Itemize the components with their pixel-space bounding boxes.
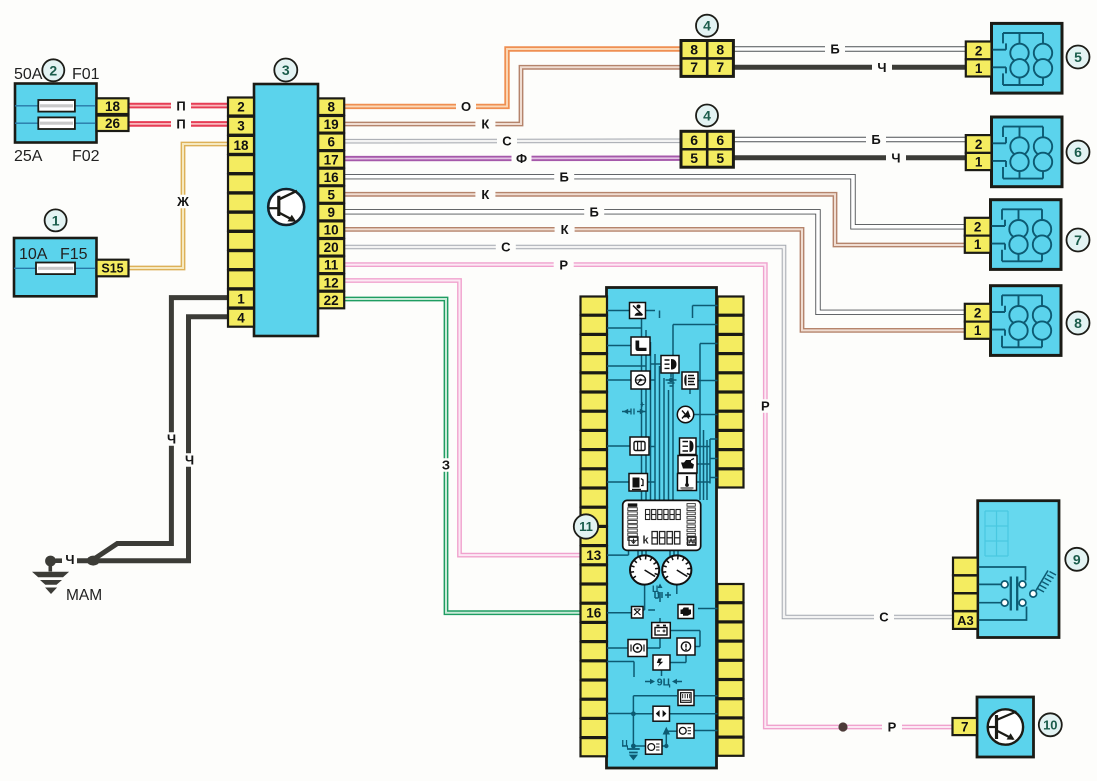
wire С gray connector 3 pin 6 to connector 4 pin 6 (344, 139, 681, 144)
svg-text:П: П (176, 117, 185, 132)
wire colour label П (171, 117, 191, 131)
svg-text:8: 8 (1074, 315, 1082, 331)
fuse F01 element (38, 100, 75, 112)
connector 3 left pin (blank) (228, 251, 254, 269)
svg-text:2: 2 (975, 137, 983, 152)
connector 3 right pin 12 (318, 274, 344, 291)
warning icon: turn signals (653, 706, 670, 721)
svg-text:4: 4 (703, 18, 711, 34)
warning icon: oil pressure (628, 640, 647, 657)
wire colour label П (171, 99, 191, 113)
svg-text:50A: 50A (14, 66, 43, 83)
connector 3 left pin 3 (228, 117, 254, 135)
warning icon: battery charge (652, 623, 671, 639)
cluster 11 right pin (blank) (718, 450, 744, 468)
fuse box 2 with fuses F01 and F02 (15, 84, 97, 143)
wire colour label О (456, 100, 476, 114)
cluster 11 left pin (blank) (581, 489, 608, 507)
svg-text:Б: Б (871, 132, 880, 147)
cluster 11 right pin (blank) (718, 718, 744, 736)
connector 3 left pin (blank) (228, 174, 254, 192)
connector 3 left pin 1 (228, 290, 254, 308)
symbol 9Ц with arrows (645, 681, 682, 683)
cluster 11 right pin (blank) (718, 373, 744, 391)
svg-text:Ф: Ф (516, 151, 527, 166)
warning icon: headlight low beam (661, 356, 679, 374)
cluster 11 right pin (blank) (718, 603, 744, 621)
svg-text:2: 2 (974, 306, 982, 321)
warning icon: brake warning circle (677, 638, 695, 655)
warning icon: coolant temperature (678, 474, 697, 491)
wire Б white connector 4 to lamp 6 pin 2 (733, 137, 965, 142)
svg-text:+: + (640, 400, 645, 409)
wire colour label С (874, 610, 894, 624)
svg-text:9Ц: 9Ц (657, 677, 671, 689)
svg-text:7: 7 (961, 719, 969, 734)
connector 4 (lower) pins 6/6 and 5/5 (681, 131, 733, 167)
reference circle 11 (574, 514, 598, 538)
cluster 11 left pin (blank) (581, 412, 608, 430)
svg-text:Ч: Ч (877, 60, 886, 75)
wire О orange connector 3 pin 8 to connector 4 pin 8 (344, 49, 681, 106)
wire colour label З (436, 458, 456, 472)
reference circle 4 (upper) (696, 15, 718, 37)
svg-text:11: 11 (324, 258, 339, 273)
cluster 11 left pin (blank) (581, 527, 608, 545)
cluster internal wiring bus (607, 306, 718, 747)
pin 26 of fuse box 2 (97, 116, 129, 131)
svg-text:S15: S15 (101, 262, 123, 276)
lamp unit 6 pin 2 (966, 135, 992, 153)
cluster gauge tachometer (662, 555, 691, 584)
svg-text:6: 6 (716, 132, 724, 148)
svg-text:9: 9 (327, 205, 335, 220)
wire colour label Ф (512, 152, 532, 166)
wire colour label К (475, 117, 495, 131)
svg-text:4: 4 (703, 108, 711, 124)
wire Ч black connector 3 pin 1 to ground MAM (93, 298, 228, 560)
wire colour label Р (554, 258, 574, 272)
switch unit 9 pin (blank) (953, 576, 978, 594)
switch contacts inside unit 9 (978, 567, 1056, 620)
reference circle 4 (lower) (696, 105, 718, 127)
pin 18 of fuse box 2 (97, 98, 129, 114)
svg-text:F01: F01 (72, 66, 100, 83)
wire colour label Ч (886, 151, 906, 165)
wire Б white connector 4 to lamp 5 pin 2 (733, 46, 965, 51)
warning icon: oil can (678, 456, 697, 474)
svg-text:1: 1 (237, 291, 245, 306)
svg-text:26: 26 (105, 116, 121, 131)
reference circle 10 (1039, 713, 1062, 736)
cluster 11 right pin (blank) (718, 738, 744, 756)
connector 3 right pin 17 (318, 151, 344, 168)
label Ч on wire from pin 4 (184, 453, 196, 467)
wire colour label Б (584, 205, 604, 219)
svg-text:Б: Б (830, 42, 839, 57)
cluster 11 left pin (blank) (581, 642, 608, 660)
wire Р pink connector 3 pin 11 to transistor unit 10 pin 7 (344, 265, 953, 727)
warning icon: steering/brake circle (631, 371, 650, 389)
svg-text:Ч: Ч (185, 453, 194, 468)
symbol Ц+ below gauges (655, 592, 671, 598)
svg-text:К: К (481, 187, 489, 202)
warning icon: high beam (680, 438, 697, 455)
svg-text:A3: A3 (957, 613, 974, 628)
svg-text:16: 16 (586, 606, 602, 621)
cluster 11 left pin (blank) (581, 469, 608, 487)
connector 3 left pin 18 (228, 136, 254, 154)
cluster 11 left pin (blank) (581, 431, 608, 449)
wire colour label Р (882, 720, 902, 734)
wire П red fuse F01 pin18 to connector 3 pin 2 (129, 103, 229, 109)
wire colour label С (497, 134, 517, 148)
connector 3 left pin (blank) (228, 194, 254, 212)
lamp unit 8 pin 1 (965, 322, 991, 339)
cluster 11 left pin (blank) (581, 335, 608, 353)
warning icon: check engine (678, 605, 694, 619)
cluster 11 left pin (blank) (581, 719, 608, 737)
wire П red fuse F02 pin26 to connector 3 pin 3 (129, 121, 229, 127)
wire colour label Б (825, 42, 845, 56)
svg-text:МАМ: МАМ (66, 587, 102, 604)
svg-text:К: К (561, 222, 569, 237)
warning icon: buzzer circle (677, 406, 693, 422)
connector 3 right pin 9 (318, 204, 344, 221)
svg-text:П: П (176, 98, 185, 113)
wire colour label К (555, 223, 575, 237)
cluster 11 right pin (blank) (718, 584, 744, 602)
cluster 11 left pin (blank) (581, 681, 608, 699)
cluster 11 left pin 16 (581, 604, 608, 622)
transistor symbol inside unit 10 (988, 709, 1023, 744)
junction dot on wire Р (838, 722, 847, 731)
warning icon: seat (631, 337, 650, 355)
lamp unit 8 pin 2 (965, 304, 991, 322)
svg-text:7: 7 (1074, 232, 1082, 248)
svg-text:Р: Р (559, 257, 568, 272)
wire Ч black connector 3 pin 4 to ground MAM (77, 317, 228, 561)
svg-text:Ч: Ч (167, 432, 176, 447)
svg-text:3: 3 (282, 62, 290, 78)
reference circle 5 (1067, 46, 1090, 69)
svg-text:2: 2 (237, 99, 245, 114)
transistor unit 10 body (977, 697, 1034, 757)
connector 3 left pin (blank) (228, 213, 254, 231)
svg-text:6: 6 (1074, 144, 1082, 160)
svg-text:Ч: Ч (891, 150, 900, 165)
svg-text:10A: 10A (19, 246, 48, 263)
svg-text:5: 5 (716, 150, 724, 166)
svg-text:С: С (501, 240, 511, 255)
svg-text:Р: Р (761, 399, 770, 414)
svg-text:С: С (502, 134, 512, 149)
switch unit 9 pin (blank) (953, 558, 978, 576)
svg-text:11: 11 (579, 519, 593, 534)
svg-text:12: 12 (324, 275, 339, 290)
svg-text:Ц: Ц (652, 584, 659, 594)
svg-text:Ц: Ц (622, 739, 629, 749)
warning icon: door ajar (630, 437, 649, 455)
connector 3 left pin (blank) (228, 155, 254, 173)
svg-text:1: 1 (974, 237, 982, 252)
switch unit 9 body (978, 501, 1059, 638)
svg-text:3: 3 (237, 119, 245, 134)
wire К brown connector 3 pin 5 to lamp 7 pin 1 (344, 194, 967, 245)
cluster 11 left pin (blank) (581, 700, 608, 718)
wire К brown connector 3 pin 10 to lamp 8 pin 1 (344, 229, 968, 330)
connector 3 right pin 10 (318, 221, 344, 238)
reference circle 9 (1065, 548, 1088, 571)
connector 3 left pin 4 (228, 309, 254, 327)
svg-text:18: 18 (105, 99, 121, 114)
lamp unit 6 pin 1 (966, 153, 992, 170)
cluster 11 left pin (blank) (581, 623, 608, 641)
cluster 11 right pin (blank) (718, 316, 744, 334)
lamp unit 5 pin 2 (966, 42, 992, 60)
reference circle 8 (1067, 312, 1090, 335)
wire colour label Р (755, 399, 775, 413)
connector 3 left pin (blank) (228, 232, 254, 250)
wire Р pink connector 3 pin 12 to cluster 11 pin 13 (344, 281, 581, 556)
wire С gray connector 3 pin 20 to switch 9 pin A3 (344, 247, 953, 617)
svg-text:З: З (442, 458, 450, 473)
cluster internal ground symbol (627, 749, 640, 759)
lamp unit 5 pin 1 (966, 59, 992, 76)
cluster 11 right pin (blank) (718, 642, 744, 660)
svg-text:8: 8 (716, 41, 724, 57)
lamp unit 7 pin 1 (965, 236, 991, 253)
svg-text:4: 4 (237, 311, 245, 326)
svg-text:25A: 25A (14, 148, 43, 165)
svg-text:1: 1 (52, 212, 60, 228)
svg-text:Б: Б (560, 169, 569, 184)
wire colour label С (496, 240, 516, 254)
cluster 11 right pin (blank) (718, 469, 744, 487)
junction dots inside cluster (631, 378, 673, 749)
svg-text:Б: Б (590, 204, 599, 219)
svg-text:6: 6 (327, 135, 335, 150)
connector 3 right pin 19 (318, 116, 344, 133)
arrow to lamp icon (666, 730, 677, 732)
svg-text:5: 5 (327, 187, 335, 202)
wire colour label Б (866, 133, 886, 147)
pin S15 (97, 260, 129, 277)
wire Б white connector 3 pin 9 to lamp 8 pin 2 (344, 212, 968, 312)
wire З green connector 3 pin 22 to cluster 11 pin 16 (344, 299, 581, 613)
reference circle 3 (274, 59, 297, 82)
connector block 3 body (254, 84, 318, 336)
warning icon: seat belt reminder (630, 303, 646, 319)
lamp unit 6 (991, 117, 1063, 187)
svg-text:20: 20 (324, 240, 339, 255)
cluster 11 left pin (blank) (581, 297, 608, 315)
cluster 11 right pin (blank) (718, 699, 744, 717)
svg-text:19: 19 (324, 117, 339, 132)
lamp unit 7 pin 2 (965, 218, 991, 236)
lamp unit 7 (990, 200, 1062, 270)
svg-text:7: 7 (716, 59, 724, 75)
svg-text:С: С (879, 610, 889, 625)
svg-text:9: 9 (1073, 551, 1081, 567)
svg-text:К: К (481, 117, 489, 132)
reference circle 2 (42, 59, 64, 81)
warning icon: side lamp (646, 740, 663, 755)
svg-text:7: 7 (690, 59, 698, 75)
cluster 11 left pin (blank) (581, 661, 608, 679)
warning icon: exclamation indicator (653, 655, 670, 670)
switch unit 9 internal grid (985, 511, 1008, 556)
transistor unit 10 pin 7 (953, 718, 978, 735)
wire colour label Б (554, 170, 574, 184)
svg-text:17: 17 (324, 152, 339, 167)
svg-text:10: 10 (324, 223, 339, 238)
svg-text:22: 22 (324, 293, 339, 308)
fuse 1 F15 box (14, 238, 97, 296)
reference circle 7 (1067, 229, 1090, 252)
label Ч on wire from pin 1 (166, 432, 178, 446)
svg-text:18: 18 (233, 138, 249, 153)
cluster 11 right pin (blank) (718, 661, 744, 679)
cluster gauge speedometer (630, 555, 659, 584)
svg-text:2: 2 (49, 62, 57, 78)
symbol Ц+ with arrows (left) (622, 409, 646, 415)
cluster 11 left pin (blank) (581, 508, 608, 526)
svg-text:Ж: Ж (176, 194, 189, 209)
svg-text:6: 6 (690, 132, 698, 148)
transistor symbol inside connector 3 (268, 189, 304, 225)
cluster 11 right pin (blank) (718, 335, 744, 353)
connector 3 left pin (blank) (228, 270, 254, 288)
connector 3 right pin 8 (318, 98, 344, 115)
ground MAM terminal and symbol (32, 556, 69, 594)
cluster 11 right pin (blank) (718, 354, 744, 372)
cluster 11 right pin (blank) (718, 412, 744, 430)
mini ground symbol in cluster top (666, 380, 677, 386)
wire К brown connector 3 pin 19 to connector 4 pin 7 (344, 67, 681, 124)
svg-text:1: 1 (975, 154, 983, 169)
connector 3 right pin 16 (318, 169, 344, 186)
label Ч on ground lead (65, 553, 76, 567)
connector 3 left pin 2 (228, 98, 254, 116)
cluster 11 right pin (blank) (718, 297, 744, 315)
svg-text:F15: F15 (60, 246, 88, 263)
cluster 11 right pin (blank) (718, 431, 744, 449)
connector 3 right pin 6 (318, 134, 344, 151)
wire colour label Ж (173, 195, 193, 209)
wire Ж yellow fuse F15 S15 to connector 3 pin 18 (129, 144, 229, 268)
svg-text:2: 2 (975, 43, 983, 58)
warning icon: small indicator (632, 607, 644, 619)
cluster 11 right pin (blank) (718, 622, 744, 640)
switch unit 9 pin A3 (953, 611, 978, 629)
wire Ч black connector 4 to lamp 5 pin 1 (733, 65, 965, 70)
wire Ф violet connector 3 pin 17 to connector 4 pin 5 (344, 155, 681, 161)
svg-text:F02: F02 (72, 148, 100, 165)
cluster 11 left pin (blank) (581, 316, 608, 334)
switch unit 9 pin (blank) (953, 593, 978, 611)
connector 3 right pin 20 (318, 239, 344, 256)
svg-text:13: 13 (586, 548, 602, 563)
svg-text:1: 1 (975, 61, 983, 76)
connector 3 right pin 22 (318, 292, 344, 309)
svg-text:8: 8 (327, 100, 335, 115)
cluster 11 left pin (blank) (581, 585, 608, 603)
cluster 11 right pin (blank) (718, 680, 744, 698)
warning icon: exterior lamp (677, 724, 694, 739)
svg-text:16: 16 (324, 170, 340, 185)
lamp unit 8 (990, 286, 1062, 356)
svg-text:1: 1 (974, 323, 982, 338)
svg-text:10: 10 (1043, 717, 1057, 732)
junction of black ground wires (87, 556, 100, 566)
svg-text:k: k (643, 535, 650, 547)
reference circle 1 (45, 209, 67, 231)
cluster 11 left pin (blank) (581, 354, 608, 372)
connector 4 (upper) pins 8/8 and 7/7 (681, 41, 733, 77)
cluster 11 left pin (blank) (581, 738, 608, 756)
svg-text:О: О (461, 99, 471, 114)
cluster 11 left pin 13 (581, 546, 608, 564)
cluster 11 left pin (blank) (581, 565, 608, 583)
cluster LCD display (623, 500, 701, 550)
instrument cluster 11 body (607, 288, 717, 769)
fuse F15 element (36, 263, 75, 275)
cluster 11 left pin (blank) (581, 450, 608, 468)
warning icon: fog lamp (682, 372, 698, 389)
warning icon: heated rear window (678, 690, 694, 706)
connector 3 right pin 5 (318, 186, 344, 203)
wire Б white connector 3 pin 16 to lamp 7 pin 2 (344, 177, 967, 227)
wire Ч black connector 4 to lamp 6 pin 1 (733, 155, 965, 160)
wire colour label Ч (872, 61, 892, 75)
svg-text:Ч: Ч (65, 552, 74, 567)
svg-text:5: 5 (690, 150, 698, 166)
wire colour label К (475, 188, 495, 202)
fuse F02 element (38, 117, 75, 129)
connector 3 right pin 11 (318, 257, 344, 274)
svg-text:5: 5 (1074, 49, 1082, 65)
cluster 11 left pin (blank) (581, 373, 608, 391)
svg-text:2: 2 (974, 220, 982, 235)
cluster 11 right pin (blank) (718, 393, 744, 411)
reference circle 6 (1067, 141, 1090, 164)
cluster 11 left pin (blank) (581, 393, 608, 411)
lamp unit 5 (991, 23, 1063, 93)
warning icon: fuel level (629, 474, 648, 492)
svg-text:8: 8 (690, 41, 698, 57)
svg-text:Р: Р (888, 720, 897, 735)
